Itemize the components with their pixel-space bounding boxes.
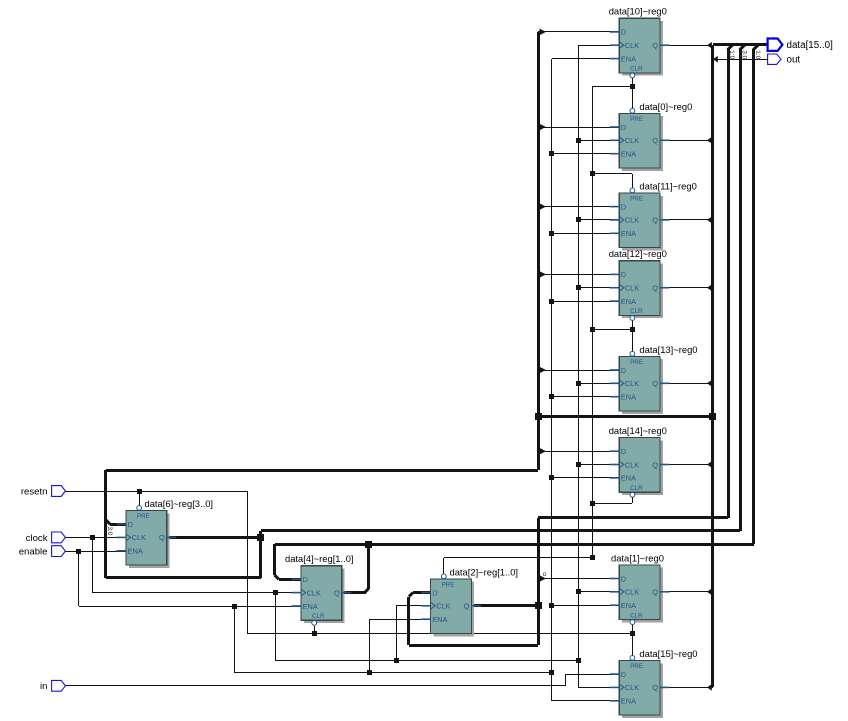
- svg-text:3:0: 3:0: [740, 50, 747, 59]
- register data[14]~reg0: [609, 425, 670, 497]
- svg-text:o: o: [543, 571, 547, 578]
- wire: clock net: [65, 535, 581, 663]
- svg-text:ENA: ENA: [621, 697, 636, 706]
- svg-text:Q: Q: [652, 284, 658, 293]
- svg-text:out: out: [787, 55, 801, 66]
- svg-text:CLK: CLK: [625, 683, 639, 692]
- svg-text:ENA: ENA: [621, 601, 636, 610]
- svg-text:CLK: CLK: [307, 588, 321, 597]
- wire: data[4] Q loop (thick): [275, 45, 759, 593]
- svg-text:ENA: ENA: [621, 393, 636, 402]
- svg-text:data[11]~reg0: data[11]~reg0: [639, 180, 696, 191]
- svg-text:D: D: [621, 270, 626, 279]
- svg-text:ENA: ENA: [621, 54, 636, 63]
- svg-text:PRE: PRE: [630, 359, 643, 366]
- svg-text:D: D: [621, 28, 626, 37]
- register data[6]~reg[3..0]: [117, 498, 214, 568]
- wire: data[1].CLR to data[15].PRE chain: [632, 625, 634, 658]
- svg-text:enable: enable: [19, 547, 48, 558]
- svg-text:D: D: [303, 575, 308, 584]
- wires: Q outputs to trunk: [660, 42, 713, 691]
- svg-text:data[10]~reg0: data[10]~reg0: [609, 6, 667, 17]
- svg-text:Q: Q: [464, 602, 470, 611]
- register data[1]~reg0: [610, 552, 670, 624]
- svg-text:data[6]~reg[3..0]: data[6]~reg[3..0]: [145, 498, 214, 509]
- register data[15]~reg0: [610, 648, 698, 718]
- svg-text:CLK: CLK: [132, 533, 146, 542]
- svg-text:clock: clock: [26, 533, 48, 544]
- arrows+wires: D inputs from trunk: [538, 29, 619, 455]
- wire: data[2] Q loop (thick): [409, 45, 733, 646]
- svg-text:data[12]~reg0: data[12]~reg0: [609, 248, 667, 259]
- svg-text:CLK: CLK: [625, 460, 639, 469]
- svg-text:resetn: resetn: [21, 486, 48, 497]
- svg-text:Q: Q: [652, 41, 658, 50]
- svg-text:PRE: PRE: [630, 116, 643, 123]
- svg-text:ENA: ENA: [128, 547, 143, 556]
- svg-text:data[2]~reg[1..0]: data[2]~reg[1..0]: [450, 566, 519, 577]
- wire: PRE/CLR chain trunk: [444, 77, 636, 574]
- svg-text:CLR: CLR: [312, 613, 325, 620]
- wire: thick D bus trunk: [106, 32, 539, 578]
- svg-text:CLR: CLR: [630, 66, 643, 73]
- svg-text:ENA: ENA: [303, 602, 318, 611]
- svg-text:D: D: [621, 574, 626, 583]
- svg-text:Q: Q: [652, 588, 658, 597]
- register data[4]~reg[1..0]: [285, 553, 354, 625]
- wire: data[6] Q loop (thick): [167, 45, 745, 578]
- svg-text:CLK: CLK: [625, 379, 639, 388]
- svg-text:data[4]~reg[1..0]: data[4]~reg[1..0]: [285, 553, 354, 564]
- wire: enable net: [65, 549, 554, 675]
- svg-text:CLR: CLR: [630, 612, 643, 619]
- svg-text:ENA: ENA: [432, 615, 447, 624]
- svg-text:Q: Q: [334, 588, 340, 597]
- svg-text:data[1]~reg0: data[1]~reg0: [611, 552, 664, 563]
- register data[12]~reg0: [609, 248, 670, 320]
- svg-text:ENA: ENA: [621, 150, 636, 159]
- svg-text:D: D: [621, 447, 626, 456]
- svg-text:D: D: [621, 202, 626, 211]
- wire: Q collect trunk (thick): [713, 45, 769, 688]
- svg-text:ENA: ENA: [621, 474, 636, 483]
- svg-text:Q: Q: [652, 683, 658, 692]
- svg-text:data[0]~reg0: data[0]~reg0: [639, 101, 692, 112]
- svg-text:PRE: PRE: [137, 513, 150, 520]
- wire: ENA trunk: [549, 59, 619, 702]
- svg-text:D: D: [621, 123, 626, 132]
- svg-text:ENA: ENA: [621, 297, 636, 306]
- svg-text:CLK: CLK: [625, 41, 639, 50]
- register data[10]~reg0: [609, 6, 670, 78]
- svg-text:1:0: 1:0: [754, 50, 761, 59]
- svg-text:CLK: CLK: [625, 284, 639, 293]
- svg-text:D: D: [128, 520, 133, 529]
- svg-text:data[13]~reg0: data[13]~reg0: [639, 344, 697, 355]
- output pin out: [768, 54, 801, 66]
- svg-text:in: in: [40, 681, 47, 692]
- svg-text:1:0: 1:0: [728, 50, 735, 59]
- wire: out net: [713, 56, 768, 63]
- input pin in: [40, 680, 65, 692]
- register data[11]~reg0: [610, 180, 697, 250]
- svg-text:PRE: PRE: [630, 196, 643, 203]
- svg-text:Q: Q: [159, 533, 165, 542]
- wire: resetn net: [65, 489, 635, 636]
- svg-text:CLK: CLK: [625, 136, 639, 145]
- register data[2]~reg[1..0]: [421, 566, 518, 636]
- svg-text:Q: Q: [652, 379, 658, 388]
- svg-text:CLR: CLR: [630, 308, 643, 315]
- wire: data[1].D from trunk: [538, 571, 619, 582]
- svg-text:D: D: [621, 366, 626, 375]
- svg-text:D: D: [432, 588, 437, 597]
- svg-text:Q: Q: [652, 216, 658, 225]
- wire: thick bus y416: [535, 413, 716, 420]
- svg-text:CLK: CLK: [625, 588, 639, 597]
- svg-text:Q: Q: [652, 136, 658, 145]
- svg-text:D: D: [621, 670, 626, 679]
- input pin resetn: [21, 486, 66, 498]
- svg-text:ENA: ENA: [621, 229, 636, 238]
- wire: CLK trunk: [576, 45, 619, 688]
- svg-text:data[14]~reg0: data[14]~reg0: [609, 425, 667, 436]
- output pin data[15..0]: [768, 39, 833, 52]
- svg-text:data[15]~reg0: data[15]~reg0: [639, 648, 697, 659]
- input pin enable: [19, 546, 66, 558]
- input pin clock: [26, 532, 66, 544]
- svg-text:CLK: CLK: [436, 602, 450, 611]
- wire: in net: [65, 674, 619, 686]
- svg-text:CLK: CLK: [625, 216, 639, 225]
- register data[13]~reg0: [610, 344, 698, 414]
- svg-text:PRE: PRE: [442, 582, 455, 589]
- svg-text:Q: Q: [652, 460, 658, 469]
- svg-text:CLR: CLR: [630, 485, 643, 492]
- svg-text:3:0: 3:0: [106, 527, 113, 536]
- register data[0]~reg0: [610, 101, 693, 171]
- svg-text:data[15..0]: data[15..0]: [787, 40, 834, 51]
- svg-text:PRE: PRE: [630, 663, 643, 670]
